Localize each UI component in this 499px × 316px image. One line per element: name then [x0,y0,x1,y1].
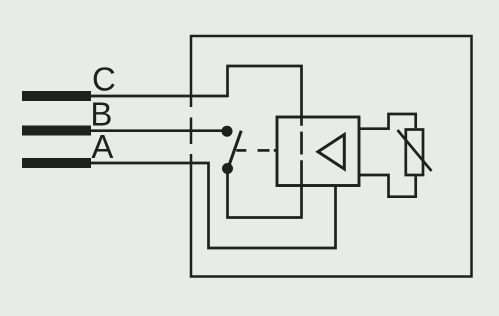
amplifier box [277,117,359,186]
switch arm [229,131,241,165]
linkage dash inside amplifier box [300,132,303,155]
switch contact dot on wire B [222,126,233,137]
varistor body [406,130,423,176]
wire amp output top with step to varistor [359,114,416,129]
dashed actuator link dash 2 [258,149,270,152]
dashed actuator link dash 1 [236,149,246,152]
wire A down and around to amplifier bottom [91,163,336,248]
enclosure left edge segment across wire B [190,118,193,145]
amplifier triangle [318,135,344,170]
switch contact dot lower [222,163,233,174]
terminal bar A [22,158,91,168]
terminal bar C [22,91,91,101]
wire C with riser to top rail and down to linkage [91,66,302,126]
svg-text:A: A [91,128,113,165]
wire amp output bottom with step to varistor [359,175,416,197]
svg-text:C: C [92,61,116,98]
terminal bar B [22,126,91,136]
varistor strike line [398,130,432,171]
wire B [91,129,223,132]
linkage lower run to switch return wire [228,160,302,217]
enclosure box (left edge with entry gaps) [191,36,472,277]
dashed actuator link stub to amplifier [274,149,278,152]
